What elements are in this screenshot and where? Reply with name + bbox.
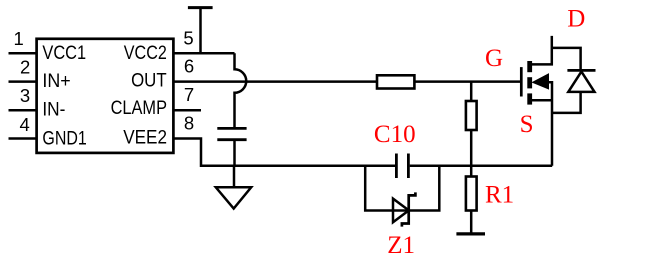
bottom rail right segment [410, 165, 553, 168]
wire: supply node down to bypass cap, with jump over OUT [235, 53, 247, 127]
MOSFET channel bars [527, 61, 532, 105]
wire: gate resistor to gate [414, 80, 520, 83]
MOSFET drain connection [530, 36, 552, 65]
svg-text:IN-: IN- [42, 100, 65, 121]
resistor R1 [466, 166, 477, 234]
svg-text:GND1: GND1 [42, 128, 86, 149]
svg-text:Z1: Z1 [387, 232, 415, 259]
pin 8 wire (VEE2 to bottom rail) [173, 139, 395, 166]
ground bar under R1 [456, 232, 485, 235]
svg-text:CLAMP: CLAMP [111, 98, 167, 119]
svg-text:VCC1: VCC1 [42, 43, 86, 64]
svg-text:4: 4 [20, 114, 30, 135]
MOSFET body/source wire down to rail [547, 82, 552, 166]
transistor Q1 MOSFET gate plate [520, 67, 523, 96]
svg-text:S: S [520, 111, 534, 138]
svg-text:5: 5 [183, 27, 193, 48]
gate resistor (unlabeled) [377, 75, 414, 88]
svg-text:8: 8 [184, 112, 194, 133]
svg-text:R1: R1 [485, 181, 514, 208]
svg-text:1: 1 [13, 28, 23, 49]
gate driver IC box [37, 39, 174, 153]
svg-text:IN+: IN+ [42, 71, 70, 92]
pin 2 wire (IN+ stub) [9, 80, 37, 83]
svg-text:G: G [485, 45, 503, 72]
pin 6 wire (OUT line to gate) [173, 80, 377, 83]
MOSFET source connection [530, 99, 553, 102]
zener Z1 branch wires [365, 166, 439, 211]
svg-text:7: 7 [184, 84, 194, 105]
pin 7 wire (CLAMP stub) [173, 109, 201, 112]
capacitor C10 [396, 154, 408, 179]
svg-text:6: 6 [184, 55, 194, 76]
ground [216, 166, 251, 209]
resistor (gate-source, unlabeled) [466, 82, 477, 166]
MOSFET body arrow [532, 74, 548, 89]
svg-text:D: D [567, 6, 585, 33]
svg-text:OUT: OUT [131, 70, 167, 91]
svg-text:C10: C10 [374, 121, 416, 148]
pin 5 wire (VCC2 stub to supply node) [173, 52, 234, 55]
pin 3 wire (IN- stub) [9, 109, 37, 112]
pin 1 wire (VCC1 stub) [9, 52, 37, 55]
VCC2 supply rail symbol [188, 8, 213, 54]
svg-text:2: 2 [20, 57, 30, 78]
body diode D [567, 70, 595, 92]
svg-text:VCC2: VCC2 [124, 43, 167, 64]
wire: drain to body diode cathode [552, 48, 581, 71]
zener diode Z1 [393, 192, 415, 226]
svg-text:VEE2: VEE2 [123, 127, 167, 148]
bypass capacitor [217, 128, 246, 165]
pin 4 wire (GND1 stub) [9, 137, 37, 140]
wire: source to body diode anode [552, 92, 580, 113]
svg-text:3: 3 [20, 85, 30, 106]
